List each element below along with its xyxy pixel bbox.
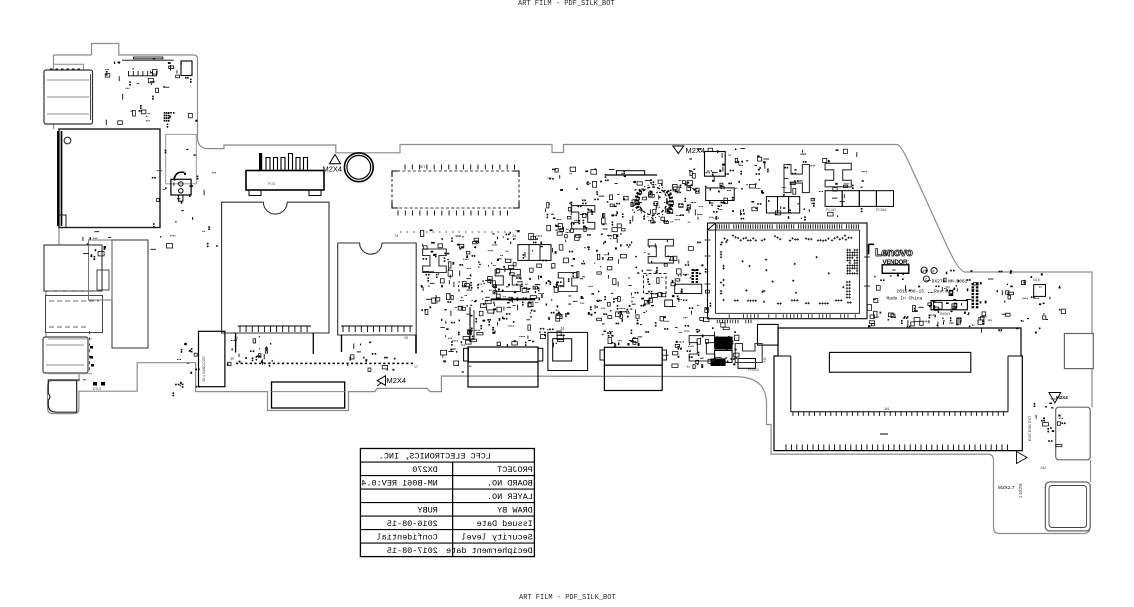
svg-text:2016-08-15: 2016-08-15	[896, 289, 924, 295]
svg-text:ART FILM - PDF_SILK_BOT: ART FILM - PDF_SILK_BOT	[518, 0, 615, 8]
svg-text:PJ3: PJ3	[268, 181, 276, 186]
svg-text:Security level: Security level	[461, 532, 532, 542]
svg-text:C: C	[925, 277, 928, 282]
svg-text:JET: JET	[419, 165, 426, 169]
svg-text:39: 39	[230, 357, 234, 361]
svg-text:RUBY: RUBY	[417, 505, 437, 515]
svg-text:1.5X2M: 1.5X2M	[1018, 483, 1023, 498]
svg-text:Decipherment date: Decipherment date	[446, 546, 533, 556]
svg-text:G15: G15	[1033, 278, 1040, 282]
svg-text:NM-B061 REV:0.4: NM-B061 REV:0.4	[361, 478, 438, 488]
svg-text:48.4 SANDCOS: 48.4 SANDCOS	[202, 356, 206, 382]
svg-text:LAYER NO.: LAYER NO.	[487, 492, 533, 502]
svg-text:M2X4: M2X4	[387, 376, 407, 385]
svg-text:J4: J4	[560, 326, 565, 331]
svg-text:Confidential: Confidential	[377, 532, 438, 542]
svg-text:J42: J42	[1040, 466, 1046, 470]
svg-text:J#1: J#1	[884, 407, 890, 411]
svg-text:2016-08-15: 2016-08-15	[387, 519, 438, 529]
svg-text:Made In China: Made In China	[887, 295, 923, 301]
svg-text:R#0#3: R#0#3	[940, 312, 950, 316]
svg-text:74: 74	[394, 234, 398, 238]
svg-text:ESD ESN DST: ESD ESN DST	[1028, 415, 1032, 441]
svg-text:Lenovo: Lenovo	[875, 247, 913, 259]
svg-text:28: 28	[404, 336, 408, 340]
svg-text:17: 17	[414, 365, 418, 369]
svg-text:D7L0: D7L0	[93, 387, 101, 391]
svg-text:M2X4: M2X4	[323, 165, 343, 174]
svg-text:2017-08-15: 2017-08-15	[387, 546, 438, 556]
svg-text:PROJECT: PROJECT	[497, 465, 533, 475]
svg-text:DX270: DX270	[412, 465, 438, 475]
svg-text:BOARD NO.: BOARD NO.	[487, 478, 533, 488]
svg-text:PC5#3: PC5#3	[876, 208, 886, 212]
svg-text:M2X4: M2X4	[686, 146, 706, 155]
svg-text:PC4#7: PC4#7	[826, 208, 836, 212]
svg-text:ART FILM - PDF_SILK_BOT: ART FILM - PDF_SILK_BOT	[519, 594, 616, 602]
svg-text:DRAW BY: DRAW BY	[497, 505, 533, 515]
svg-text:T40: T40	[763, 357, 767, 363]
svg-text:34: 34	[512, 234, 516, 238]
svg-text:DX270 NM-B061: DX270 NM-B061	[932, 279, 968, 285]
svg-text:M2X4: M2X4	[1056, 395, 1068, 400]
svg-text:LCFC ELECTRONICS, INC.: LCFC ELECTRONICS, INC.	[379, 451, 491, 461]
svg-text:M2X2.7: M2X2.7	[998, 485, 1015, 491]
svg-text:Issued Date: Issued Date	[477, 519, 533, 529]
